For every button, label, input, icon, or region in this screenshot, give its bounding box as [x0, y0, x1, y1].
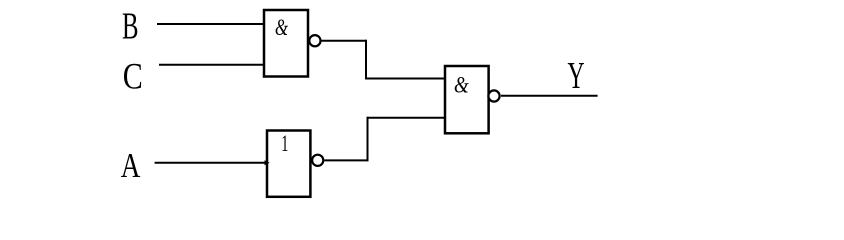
wire: G3 output riser up: [367, 117, 369, 162]
wire: to NAND G2 bottom input: [368, 117, 446, 119]
wire: input B to NAND G1: [157, 23, 264, 25]
wire: G3 output horizontal: [324, 159, 367, 161]
NAND gate G2 body: [445, 66, 489, 133]
wire: G1 output horizontal: [321, 40, 366, 42]
svg-text:&: &: [275, 15, 288, 40]
inversion bubble of G2: [488, 90, 499, 101]
svg-text:B: B: [122, 5, 139, 46]
wire: G1 output riser down: [365, 40, 367, 80]
inversion bubble of G3: [312, 155, 323, 166]
svg-text:&: &: [454, 72, 469, 98]
svg-text:C: C: [123, 57, 143, 98]
inversion bubble of G1: [309, 35, 320, 46]
wire: to NAND G2 top input: [366, 78, 445, 80]
svg-text:Y: Y: [568, 54, 585, 96]
wire: output Y: [501, 95, 598, 97]
arrowhead at A input of G3: [265, 160, 270, 165]
wire: input C to NAND G1: [159, 64, 264, 66]
NAND gate G1 body: [264, 10, 308, 77]
NOT gate G3 body: [267, 131, 310, 197]
svg-text:1: 1: [281, 132, 288, 157]
wire: input A to NOT G3: [155, 162, 266, 164]
svg-text:A: A: [121, 146, 141, 185]
